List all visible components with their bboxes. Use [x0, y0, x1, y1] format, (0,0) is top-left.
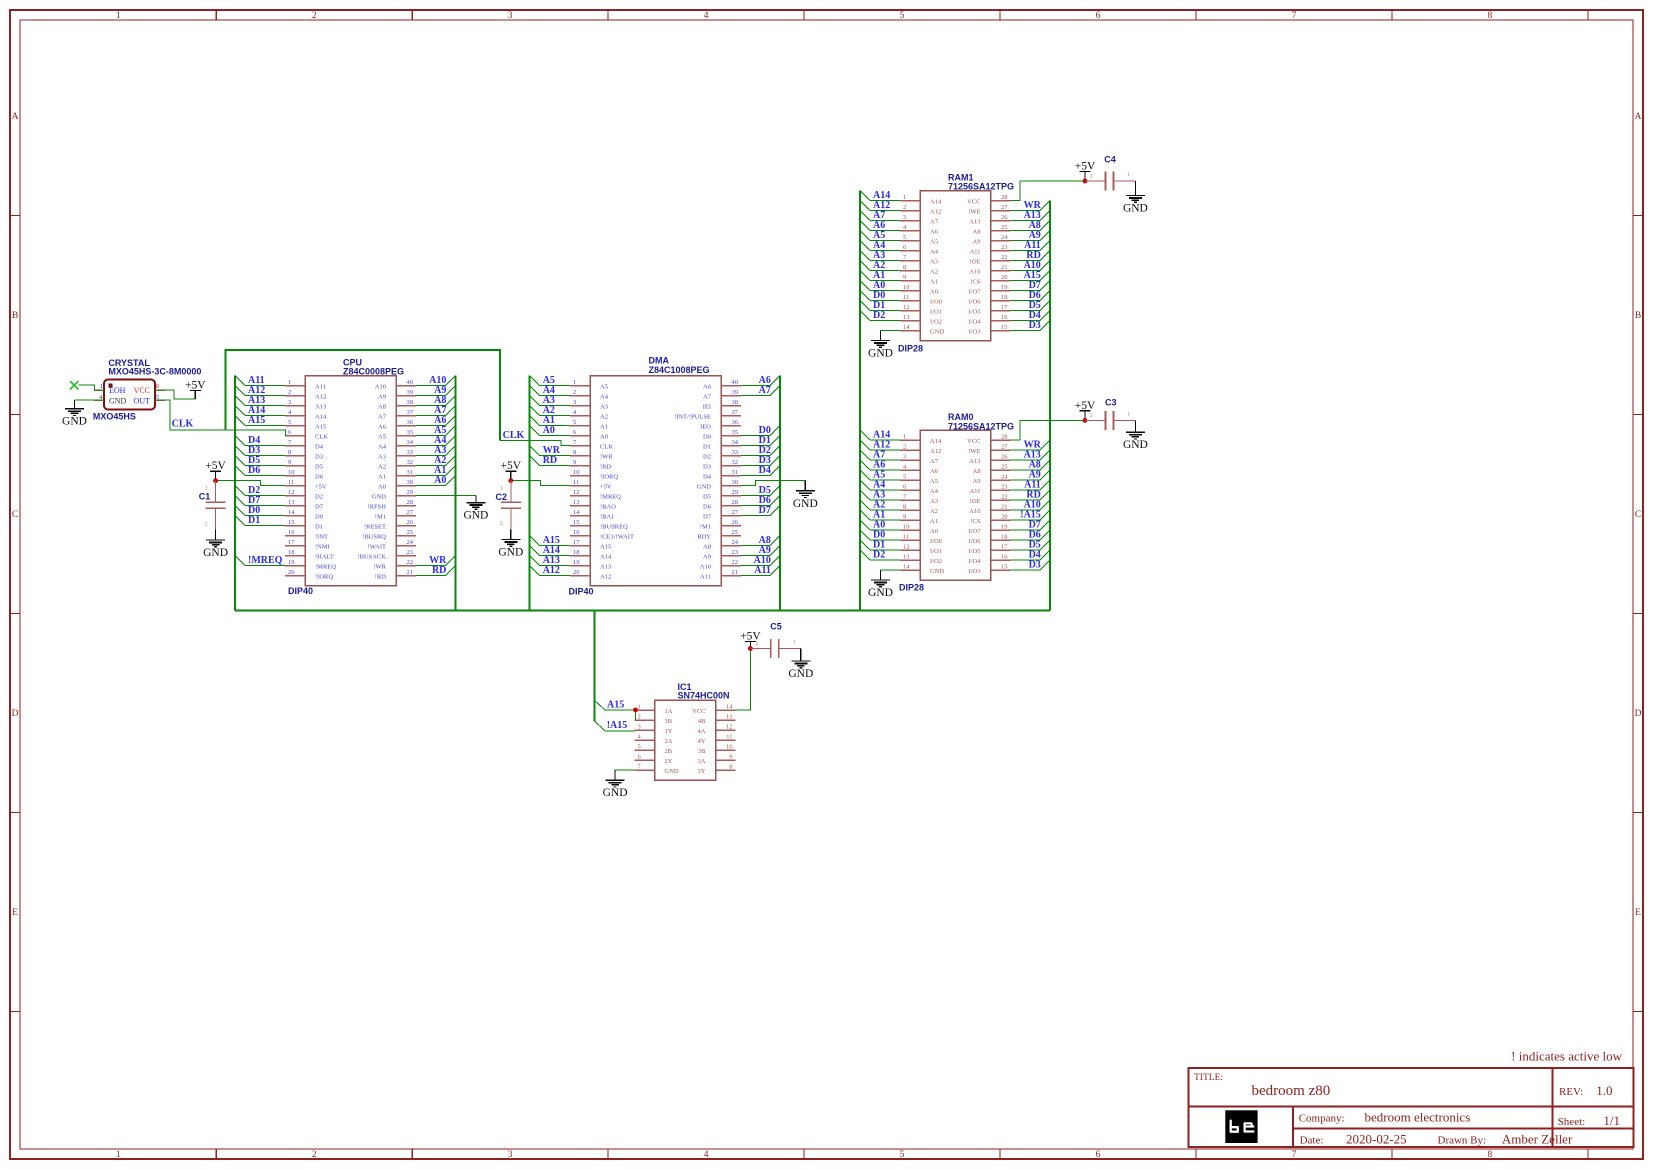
svg-text:20: 20 [1001, 274, 1008, 281]
svg-text:D3: D3 [1029, 560, 1041, 571]
svg-text:13: 13 [573, 499, 580, 506]
svg-text:3: 3 [903, 214, 906, 221]
bus wire CPU right [454, 376, 456, 611]
svg-text:A11: A11 [315, 384, 326, 391]
svg-text:14: 14 [903, 564, 910, 571]
svg-text:1/1: 1/1 [1603, 1113, 1620, 1128]
+5V symbol C5 [740, 631, 761, 649]
svg-text:11: 11 [903, 294, 909, 301]
wire !MREQ to CPU pin 19 [235, 555, 285, 566]
svg-text:24: 24 [732, 539, 739, 546]
wire A8 to CPU pin 38 [416, 395, 455, 406]
svg-text:28: 28 [732, 499, 739, 506]
svg-text:D7: D7 [315, 504, 324, 511]
svg-text:A14: A14 [930, 199, 942, 206]
svg-text:1: 1 [1127, 411, 1130, 417]
wire A15 to DMA pin 17 [530, 535, 570, 546]
svg-text:2: 2 [288, 389, 291, 396]
svg-text:A12: A12 [930, 209, 941, 216]
svg-text:DIP40: DIP40 [288, 586, 313, 596]
logo be (bedroom electronics) [1225, 1110, 1257, 1143]
svg-text:21: 21 [1001, 504, 1008, 511]
svg-text:DIP40: DIP40 [569, 587, 594, 597]
svg-text:27: 27 [732, 509, 739, 516]
ground C2 [498, 530, 523, 559]
+5V symbol C3 [1075, 400, 1096, 421]
wire A6 to RAM1 pin 4 [860, 220, 900, 231]
svg-text:D6: D6 [315, 474, 324, 481]
svg-text:A3: A3 [930, 498, 938, 505]
wire A9 to DMA pin 23 [741, 545, 780, 556]
wire A1 to DMA pin 5 [530, 415, 570, 426]
svg-text:+5V: +5V [1075, 400, 1096, 412]
wire D1 to RAM0 pin 12 [860, 540, 900, 551]
svg-text:SN74HC00N: SN74HC00N [678, 691, 730, 701]
svg-text:I/O6: I/O6 [969, 538, 982, 545]
svg-text:2: 2 [573, 389, 576, 396]
wire D0 to RAM1 pin 11 [860, 290, 900, 301]
svg-text:A10: A10 [969, 269, 980, 276]
svg-text:17: 17 [1001, 544, 1008, 551]
svg-text:25: 25 [732, 529, 739, 536]
svg-text:22: 22 [1001, 494, 1008, 501]
svg-text:21: 21 [732, 569, 739, 576]
wire A2 to CPU pin 32 [416, 455, 455, 466]
svg-text:A11: A11 [754, 565, 771, 576]
svg-text:+5V: +5V [501, 460, 522, 472]
svg-text:A15: A15 [600, 544, 611, 551]
bus wire IC1 riser [593, 610, 595, 721]
svg-text:A13: A13 [315, 404, 326, 411]
svg-text:B: B [12, 311, 18, 321]
svg-text:3A: 3A [698, 758, 706, 765]
wire A5 to DMA pin 1 [530, 375, 570, 386]
svg-text:31: 31 [732, 469, 739, 476]
wire A4 to CPU pin 34 [416, 435, 455, 446]
wire crystal pin 8 to +5V [155, 390, 195, 399]
svg-text:A8: A8 [973, 468, 981, 475]
wire D7 to DMA pin 27 [741, 505, 780, 516]
wire D4 to CPU pin 7 [235, 435, 285, 446]
wire WR to RAM1 pin 27 [1011, 200, 1050, 211]
svg-text:12: 12 [573, 489, 580, 496]
svg-text:!CE1/!WAIT: !CE1/!WAIT [600, 534, 634, 541]
wire A10 to RAM0 pin 21 [1011, 500, 1050, 511]
svg-text:D0: D0 [315, 514, 323, 521]
svg-text:A13: A13 [969, 458, 980, 465]
svg-text:1.0: 1.0 [1596, 1083, 1612, 1098]
svg-text:37: 37 [407, 409, 414, 416]
svg-text:MXO45HS: MXO45HS [93, 412, 136, 422]
svg-text:A2: A2 [930, 269, 938, 276]
wire !A15 to IC1 pin 3 [594, 720, 635, 731]
wire WR to RAM0 pin 27 [1011, 440, 1050, 451]
wire D6 to DMA pin 28 [741, 495, 780, 506]
svg-text:Drawn By:: Drawn By: [1438, 1135, 1487, 1147]
wire D5 to RAM1 pin 17 [1011, 300, 1050, 311]
junction C1 node [213, 478, 218, 483]
wire D1 to CPU pin 15 [235, 515, 285, 526]
svg-text:9: 9 [573, 459, 576, 466]
svg-text:13: 13 [903, 554, 910, 561]
junction C4 node [1083, 179, 1088, 184]
DMA Z84C1008PEG (DIP40) [569, 356, 742, 597]
svg-text:A14: A14 [315, 414, 327, 421]
svg-text:D2: D2 [315, 494, 323, 501]
wire RD to RAM0 pin 22 [1011, 490, 1050, 501]
svg-text:GND: GND [868, 587, 893, 599]
net label CLK (DMA) [503, 430, 525, 441]
svg-text:+5V: +5V [205, 460, 226, 472]
wire D2 to DMA pin 33 [741, 445, 780, 456]
svg-text:1: 1 [100, 383, 103, 390]
svg-text:3Y: 3Y [698, 768, 706, 775]
svg-text:22: 22 [407, 559, 414, 566]
svg-text:GND: GND [1123, 203, 1148, 215]
wire A7 to RAM0 pin 3 [860, 450, 900, 461]
wire A3 to RAM0 pin 7 [860, 490, 900, 501]
svg-text:38: 38 [732, 399, 739, 406]
svg-text:!INT/!PULSE: !INT/!PULSE [674, 414, 711, 421]
svg-text:A10: A10 [969, 508, 980, 515]
svg-text:16: 16 [1001, 554, 1008, 561]
svg-text:35: 35 [407, 429, 414, 436]
svg-text:Amber Zeller: Amber Zeller [1502, 1132, 1573, 1147]
svg-text:1: 1 [573, 379, 576, 386]
svg-text:16: 16 [288, 529, 295, 536]
svg-text:Sheet:: Sheet: [1558, 1116, 1586, 1128]
svg-text:A4: A4 [930, 249, 939, 256]
svg-text:A6: A6 [703, 384, 712, 391]
wire D3 to RAM1 pin 15 [1011, 320, 1050, 331]
svg-text:RD: RD [432, 565, 446, 576]
svg-text:1A: 1A [665, 708, 673, 715]
wire A0 to RAM0 pin 10 [860, 520, 900, 531]
svg-text:24: 24 [1001, 474, 1008, 481]
svg-text:I/O2: I/O2 [930, 319, 942, 326]
svg-text:6: 6 [1096, 11, 1101, 21]
svg-text:D4: D4 [315, 444, 324, 451]
wire RD to DMA pin 9 [530, 455, 570, 466]
svg-text:34: 34 [407, 439, 414, 446]
svg-text:3: 3 [508, 11, 513, 21]
ground C4 [1123, 181, 1148, 215]
wire A2 to RAM0 pin 8 [860, 500, 900, 511]
svg-text:I/O0: I/O0 [930, 299, 942, 306]
svg-text:16: 16 [573, 529, 580, 536]
svg-text:A8: A8 [703, 544, 711, 551]
wire A2 to RAM1 pin 8 [860, 260, 900, 271]
svg-text:IEI: IEI [703, 404, 711, 411]
svg-text:D: D [12, 709, 19, 719]
svg-text:18: 18 [1001, 294, 1008, 301]
svg-text:17: 17 [288, 539, 295, 546]
wire A15 to CPU pin 5 [235, 415, 285, 426]
svg-text:21: 21 [407, 569, 414, 576]
svg-text:A5: A5 [930, 478, 938, 485]
wire D4 to DMA pin 31 [741, 465, 780, 476]
svg-text:A8: A8 [378, 404, 386, 411]
svg-text:MXO45HS-3C-8M0000: MXO45HS-3C-8M0000 [108, 367, 201, 377]
svg-text:26: 26 [1001, 454, 1008, 461]
svg-text:!A15: !A15 [607, 720, 628, 731]
svg-text:1: 1 [903, 194, 906, 201]
svg-text:!IORQ: !IORQ [315, 574, 333, 581]
RAM0 71256SA12TPG (DIP28) [899, 412, 1014, 593]
svg-text:D4: D4 [703, 474, 712, 481]
svg-text:GND: GND [1123, 439, 1148, 451]
svg-text:25: 25 [407, 529, 414, 536]
svg-text:!MREQ: !MREQ [248, 555, 283, 566]
svg-text:33: 33 [407, 449, 414, 456]
svg-text:GND: GND [793, 498, 818, 510]
wire A1 to RAM1 pin 9 [860, 270, 900, 281]
wire A7 to CPU pin 37 [416, 405, 455, 416]
svg-text:2: 2 [755, 641, 758, 647]
svg-text:D: D [1635, 709, 1642, 719]
wire D1 to RAM1 pin 12 [860, 300, 900, 311]
svg-text:14: 14 [903, 324, 910, 331]
wire D0 to CPU pin 14 [235, 505, 285, 516]
svg-text:A: A [1635, 112, 1642, 122]
wire RAM0 pin 28 VCC to +5V [1011, 420, 1086, 440]
svg-text:2: 2 [500, 521, 503, 527]
bus wire RAM right [1049, 201, 1051, 611]
svg-text:C: C [1635, 510, 1641, 520]
wire A0 to RAM1 pin 10 [860, 280, 900, 291]
svg-text:8: 8 [288, 449, 291, 456]
svg-text:VCC: VCC [967, 438, 980, 445]
svg-text:A9: A9 [703, 554, 711, 561]
wire A12 to RAM0 pin 2 [860, 440, 900, 451]
svg-text:39: 39 [407, 389, 414, 396]
svg-text:28: 28 [407, 499, 414, 506]
svg-text:!WE: !WE [968, 209, 980, 216]
svg-text:9: 9 [903, 274, 906, 281]
svg-text:I/O3: I/O3 [969, 568, 981, 575]
svg-text:!WE: !WE [968, 448, 980, 455]
svg-text:I/O7: I/O7 [969, 528, 982, 535]
svg-text:8: 8 [729, 764, 732, 771]
wire A10 to CPU pin 40 [416, 375, 455, 386]
svg-text:1: 1 [638, 704, 641, 711]
wire A13 to RAM1 pin 26 [1011, 210, 1050, 221]
ground C1 [203, 530, 228, 560]
svg-text:!HALT: !HALT [315, 554, 334, 561]
svg-text:13: 13 [288, 499, 295, 506]
svg-text:7: 7 [1292, 11, 1297, 21]
wire A14 to RAM1 pin 1 [860, 190, 900, 201]
svg-text:26: 26 [1001, 214, 1008, 221]
svg-text:A8: A8 [973, 229, 981, 236]
wire RAM1 pin 28 VCC to +5V [1011, 181, 1086, 201]
wire CLK into DMA pin 7 [500, 441, 570, 446]
svg-text:2: 2 [312, 11, 317, 21]
svg-text:GND: GND [665, 768, 679, 775]
svg-text:!OE: !OE [970, 498, 981, 505]
svg-text:19: 19 [573, 559, 580, 566]
svg-text:A0: A0 [434, 475, 446, 486]
svg-text:A12: A12 [600, 574, 611, 581]
svg-text:17: 17 [573, 539, 580, 546]
+5V symbol crystal [185, 380, 206, 400]
svg-text:I/O6: I/O6 [969, 299, 982, 306]
wire A15 to IC1 pins 1-2 [594, 700, 635, 721]
svg-text:1B: 1B [665, 718, 673, 725]
svg-text:+5V: +5V [185, 380, 206, 392]
svg-text:9: 9 [729, 754, 732, 761]
wire A9 to RAM1 pin 24 [1011, 230, 1050, 241]
svg-text:D3: D3 [1029, 320, 1041, 331]
svg-text:E: E [12, 908, 18, 918]
svg-text:1: 1 [288, 379, 291, 386]
svg-text:A9: A9 [973, 239, 981, 246]
svg-text:RD: RD [543, 455, 557, 466]
wire C1 node to CPU pin 11 [216, 481, 285, 486]
svg-text:A12: A12 [543, 565, 560, 576]
svg-text:C: C [12, 510, 18, 520]
svg-text:!IORQ: !IORQ [600, 474, 618, 481]
wire A12 to CPU pin 2 [235, 385, 285, 396]
svg-text:38: 38 [407, 399, 414, 406]
svg-text:D6: D6 [703, 504, 712, 511]
svg-text:3: 3 [288, 399, 291, 406]
svg-text:7: 7 [1292, 1150, 1297, 1160]
svg-text:3: 3 [638, 724, 641, 731]
svg-text:DMA: DMA [649, 356, 670, 366]
svg-text:bedroom z80: bedroom z80 [1252, 1083, 1331, 1099]
svg-text:!BAI: !BAI [600, 514, 613, 521]
wire CLK crystal OUT to CPU pin 6 [155, 400, 286, 436]
svg-text:D2: D2 [873, 550, 885, 561]
svg-text:D1: D1 [248, 515, 260, 526]
svg-text:3B: 3B [698, 748, 706, 755]
svg-text:D3: D3 [703, 464, 711, 471]
svg-text:35: 35 [732, 429, 739, 436]
wire A1 to CPU pin 31 [416, 465, 455, 476]
wire D0 to DMA pin 35 [741, 425, 780, 436]
svg-text:CLK: CLK [315, 434, 328, 441]
svg-text:30: 30 [407, 479, 414, 486]
svg-text:40: 40 [407, 379, 414, 386]
svg-text:18: 18 [573, 549, 580, 556]
wire A14 to DMA pin 18 [530, 545, 570, 556]
svg-text:RAM0: RAM0 [948, 412, 974, 422]
wire D7 to CPU pin 13 [235, 495, 285, 506]
IC1 SN74HC00N (DIP14) [635, 682, 736, 780]
wire A8 to DMA pin 24 [741, 535, 780, 546]
wire crystal pin 1 [79, 385, 105, 390]
bus wire RAM left [859, 191, 861, 611]
svg-text:!NMI: !NMI [315, 544, 330, 551]
wire D4 to RAM1 pin 16 [1011, 310, 1050, 321]
svg-text:D2: D2 [873, 310, 885, 321]
svg-text:34: 34 [732, 439, 739, 446]
wire C2 node to DMA pin 11 [511, 481, 570, 486]
wire D7 to RAM0 pin 19 [1011, 520, 1050, 531]
wire A13 to CPU pin 3 [235, 395, 285, 406]
svg-text:10: 10 [726, 744, 733, 751]
svg-text:!MREQ: !MREQ [315, 564, 336, 571]
note active low [1511, 1049, 1622, 1064]
wire D4 to RAM0 pin 16 [1011, 550, 1050, 561]
wire D0 to RAM0 pin 11 [860, 530, 900, 541]
svg-text:2: 2 [1090, 174, 1093, 180]
svg-text:D6: D6 [248, 465, 260, 476]
svg-text:15: 15 [1001, 324, 1008, 331]
svg-text:A10: A10 [375, 384, 386, 391]
svg-text:2B: 2B [665, 748, 673, 755]
svg-text:A6: A6 [930, 468, 939, 475]
svg-text:4: 4 [704, 11, 709, 21]
bus wire bottom loop [235, 609, 1050, 611]
svg-text:2: 2 [903, 444, 906, 451]
svg-text:VCC: VCC [134, 386, 150, 395]
svg-text:!WR: !WR [373, 564, 386, 571]
svg-text:1Y: 1Y [665, 728, 673, 735]
wire A3 to RAM1 pin 7 [860, 250, 900, 261]
svg-text:C3: C3 [1105, 398, 1117, 408]
svg-text:2: 2 [312, 1150, 317, 1160]
svg-text:20: 20 [573, 569, 580, 576]
svg-text:15: 15 [288, 519, 295, 526]
svg-text:C4: C4 [1104, 155, 1116, 165]
svg-text:A11: A11 [970, 249, 981, 256]
svg-text:6: 6 [1096, 1150, 1101, 1160]
svg-text:A12: A12 [930, 448, 941, 455]
svg-text:A14: A14 [930, 438, 942, 445]
ground IC1 [603, 770, 628, 799]
svg-text:11: 11 [573, 479, 579, 486]
svg-text:A13: A13 [600, 564, 611, 571]
svg-text:GND: GND [62, 416, 87, 428]
svg-text:REV:: REV: [1559, 1086, 1583, 1098]
svg-text:5: 5 [903, 474, 906, 481]
svg-text:!RESET: !RESET [364, 524, 386, 531]
svg-text:I/O2: I/O2 [930, 558, 942, 565]
svg-text:!RD: !RD [600, 464, 612, 471]
wire A5 to RAM0 pin 5 [860, 470, 900, 481]
op-amp CPU Z84C0008PEG (DIP40) [285, 358, 416, 597]
wire A10 to DMA pin 22 [741, 555, 780, 566]
svg-text:36: 36 [732, 419, 739, 426]
svg-text:8: 8 [573, 449, 576, 456]
svg-text:Date:: Date: [1300, 1135, 1324, 1147]
wire D6 to CPU pin 10 [235, 465, 285, 476]
bus wire CPU left [234, 376, 236, 611]
svg-text:14: 14 [573, 509, 580, 516]
svg-text:A3: A3 [600, 404, 608, 411]
svg-text:D5: D5 [315, 464, 323, 471]
svg-text:32: 32 [407, 459, 414, 466]
wire A4 to RAM1 pin 6 [860, 240, 900, 251]
+5V symbol C1 [205, 460, 226, 481]
wire WR to CPU pin 22 [416, 555, 455, 566]
svg-text:GND: GND [868, 348, 893, 360]
svg-text:VCC: VCC [692, 708, 705, 715]
svg-text:8: 8 [903, 504, 906, 511]
svg-text:17: 17 [1001, 304, 1008, 311]
svg-text:A9: A9 [378, 394, 386, 401]
svg-text:!BUSACK: !BUSACK [357, 554, 386, 561]
svg-text:2A: 2A [665, 738, 673, 745]
svg-text:25: 25 [1001, 224, 1008, 231]
bus wire DMA left [529, 376, 531, 611]
svg-text:28: 28 [1001, 434, 1008, 441]
svg-text:I/O1: I/O1 [930, 309, 942, 316]
svg-text:A14: A14 [600, 554, 612, 561]
svg-text:A7: A7 [703, 394, 712, 401]
